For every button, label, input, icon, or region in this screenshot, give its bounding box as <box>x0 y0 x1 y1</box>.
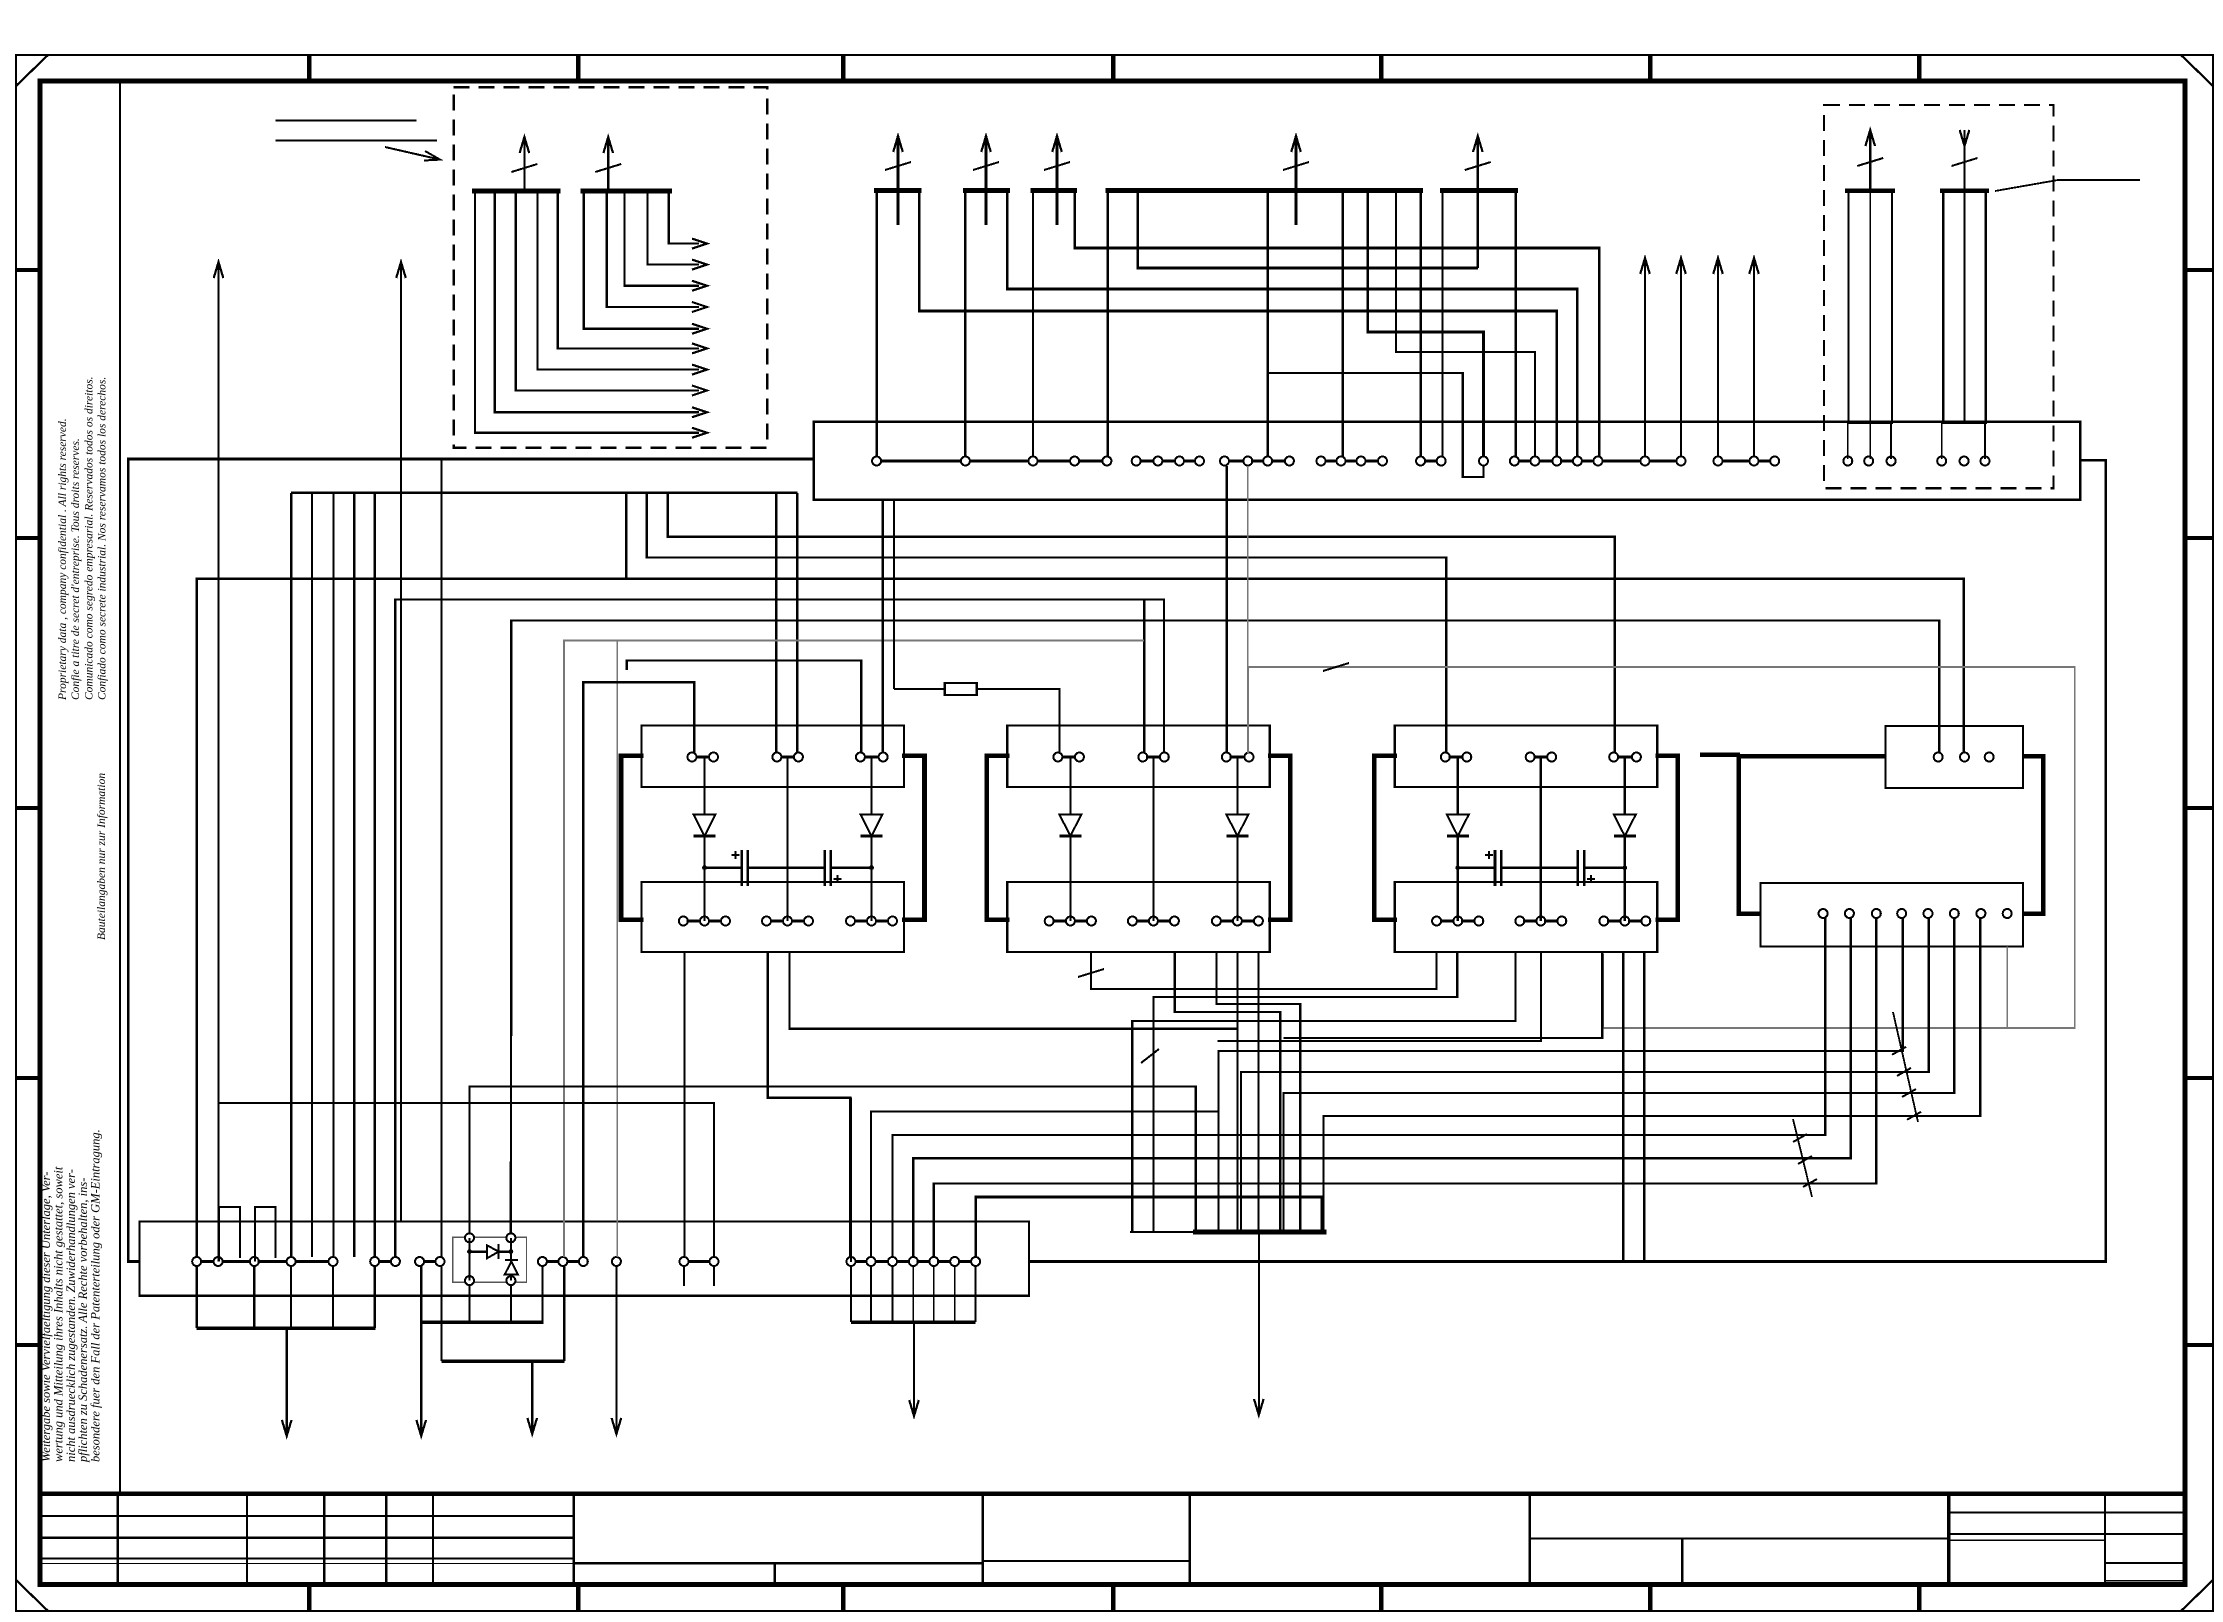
wire X1 drop c 913.3 <box>912 1266 914 1322</box>
wire W1 comb1 pin 5 <box>558 191 699 348</box>
terminal group X2.3 <box>1225 459 1248 462</box>
bus bar B1 <box>1193 1230 1327 1235</box>
wire X1 drop c 892.5 <box>892 1266 894 1322</box>
wire K3 capacitor link <box>1458 867 1495 869</box>
wire R1 right <box>977 689 1060 753</box>
wire K3 out 6 <box>1643 952 1645 1262</box>
wire comb B right <box>1007 191 1577 459</box>
contactor K2 coil box (top) <box>1007 726 1270 788</box>
wire header to K3 pole1 <box>647 493 1446 753</box>
connector A bar <box>874 188 922 193</box>
diode VK32 <box>1614 815 1636 837</box>
connector W1 comb 2 bar <box>581 189 672 194</box>
wire comb B left <box>964 191 966 459</box>
arrow to cable direct 2 <box>615 1266 617 1434</box>
shield bar 1 outline <box>1848 191 1892 423</box>
wire K1 pole 3 <box>870 757 872 921</box>
wire K3 out 2 <box>1153 952 1457 1232</box>
wire bundle v3 <box>332 493 334 1257</box>
arrow out x=1645 <box>1644 258 1646 456</box>
K2 top terminal pair 1 <box>1058 755 1080 758</box>
wire bus to K4 c6 <box>1284 918 1955 1232</box>
capacitor CK12 <box>823 850 826 886</box>
signal arrow 5 <box>692 324 707 334</box>
bus bar B2 <box>197 1326 376 1330</box>
wire net 107 <box>627 660 862 753</box>
connector B bar <box>963 188 1010 193</box>
wire X2 to K2 a <box>1226 466 1228 753</box>
capacitor CK31 <box>1494 850 1497 886</box>
terminal group X2.5 <box>1421 459 1442 462</box>
K3 bottom terminal triple 3 <box>1604 919 1646 922</box>
arrow to cable B3 <box>531 1361 533 1434</box>
K1 top terminal pair 1 <box>692 755 714 758</box>
wire shield1 center <box>1869 191 1871 423</box>
diode VK22 <box>1226 815 1248 837</box>
contactor K3 contact box (bottom) <box>1395 882 1658 952</box>
wire comb D pin4 <box>1341 191 1344 459</box>
wire comb A left <box>875 191 877 459</box>
wire riser 871 <box>871 1112 1219 1258</box>
wire X1 drop 196.7 <box>196 1266 198 1328</box>
wire comb D pin6 <box>1396 191 1535 459</box>
signal arrow 4 <box>692 302 707 312</box>
wire K4 feed (thick) <box>1700 753 1740 758</box>
signal arrow 6 <box>692 343 707 353</box>
arrow out x=1718 <box>1717 258 1719 456</box>
wire net 105 (screen) <box>564 641 1144 1257</box>
signal arrow 1 <box>692 239 707 249</box>
wire K1 coil feed b <box>796 493 798 753</box>
wire comb D pin5 <box>1368 191 1484 459</box>
wire W1 comb1 pin 4 <box>538 191 700 370</box>
K1 top terminal pair 2 <box>777 755 799 758</box>
wire X1 drop b 441 <box>441 1266 443 1361</box>
wire header joint <box>625 493 627 579</box>
arrow to cable B2 <box>286 1328 288 1436</box>
wire V5 internal top <box>470 1250 511 1252</box>
capacitor CK11 <box>740 850 743 886</box>
wire K1 out 2 <box>768 952 851 1257</box>
wire bundle v2 <box>311 493 313 1257</box>
connector D bar <box>1106 188 1424 193</box>
wire comb D pin7 <box>1420 191 1423 459</box>
wire X2 to K2 b (screen) <box>1247 466 1249 753</box>
arrow comb B <box>985 136 988 225</box>
K4 contact terminals <box>1819 909 1828 918</box>
svg-text:Confie a titre de secret: Confie a titre de secret d'entreprise. T… <box>70 438 82 700</box>
wire W1 comb2 pin 1 <box>584 191 699 329</box>
shield bar 1 top <box>1845 188 1895 193</box>
wire W1 comb1 pin 3 <box>516 191 699 390</box>
wire X1 drop c 975.6 <box>975 1266 977 1322</box>
K2 top terminal pair 3 <box>1226 755 1249 758</box>
connector E bar <box>1440 188 1518 193</box>
terminal group X2.4 <box>1321 459 1341 462</box>
wire net 108 <box>440 459 442 1257</box>
main enclosure outline <box>128 459 813 1262</box>
arrow comb C <box>1056 136 1059 225</box>
wire comb E mid <box>1477 191 1480 268</box>
wire K3 out 3 <box>1132 952 1515 1232</box>
wire X1 drop 333 <box>332 1266 334 1328</box>
bus bar B3b <box>442 1359 565 1363</box>
K4 contact box <box>1760 883 2023 946</box>
wire header to K3 pole3 <box>668 493 1615 753</box>
contactor K3 bracket right <box>1655 756 1678 920</box>
K1 bottom terminal triple 1 <box>683 919 725 922</box>
wire K2 pole 1 <box>1069 757 1071 921</box>
wire X1 drop 374.7 <box>374 1266 376 1328</box>
arrow to shield (comb 1) <box>523 137 525 191</box>
terminal group X1.7 <box>851 1260 871 1263</box>
terminal strip X2 outline <box>814 422 2081 500</box>
wire K2 out 2 <box>1175 952 1281 1232</box>
arrow shield 1 <box>1869 130 1871 191</box>
connector W1 dashed outline <box>454 87 768 448</box>
arrow to cable B4 <box>913 1322 915 1416</box>
wire X1 drop 254.3 <box>253 1266 255 1328</box>
svg-text:Bauteilangaben nur zur Informa: Bauteilangaben nur zur Information <box>96 773 108 940</box>
wire K2 out 4 <box>1257 952 1259 1232</box>
bundle tick group B <box>1793 1119 1812 1197</box>
connector C bar <box>1031 188 1077 193</box>
wire K3 pole 1 <box>1457 757 1459 921</box>
annotation leader <box>1995 180 2058 191</box>
shield bar 2 top <box>1940 188 1989 193</box>
contactor K1 contact box (bottom) <box>642 882 905 952</box>
wire K3 out 7 <box>1284 952 1603 1038</box>
shield W2 dashed outline <box>1824 105 2054 488</box>
arrow comb A <box>897 136 900 225</box>
wire K1 pole 2 <box>786 757 788 921</box>
diode VK12 <box>861 815 883 837</box>
wire X1 drop b 469 <box>468 1285 470 1322</box>
wire comb D pin2 <box>1138 191 1478 268</box>
wire net 106 <box>583 682 694 1257</box>
wire X1 drop b 564 <box>563 1266 565 1361</box>
K2 bottom terminal triple 2 <box>1132 919 1174 922</box>
wire X1 drop c 933.8 <box>933 1266 935 1322</box>
signal arrow 8 <box>692 386 707 396</box>
wire net 101 <box>197 579 1964 1257</box>
resistor R1 <box>945 683 977 695</box>
wire K3 out 5 <box>1622 952 1624 1262</box>
wire K1 capacitor link <box>705 867 742 869</box>
terminal group X2.6 <box>1479 457 1488 466</box>
wire comb C right <box>1075 191 1600 459</box>
wire comb C left <box>1032 191 1034 459</box>
K1 top terminal pair 3 <box>860 755 883 758</box>
wire W1 comb2 pin 2 <box>607 191 699 307</box>
wire W1 comb2 pin 3 <box>625 191 700 286</box>
screen drop K4 pin8 (grey) <box>2006 946 2008 1028</box>
wire riser 851 <box>850 1098 852 1262</box>
K2 bottom terminal triple 1 <box>1049 919 1091 922</box>
wire bundle v1 <box>290 493 292 1257</box>
wire K1 pole 1 <box>703 757 705 921</box>
wire comb A right <box>919 191 1557 459</box>
capacitor CK32 <box>1577 850 1580 886</box>
signal arrow 7 <box>692 365 707 375</box>
terminal group X1.6 <box>684 1260 714 1263</box>
wire riser 892 <box>893 918 1826 1257</box>
K3 bottom terminal triple 1 <box>1437 919 1479 922</box>
svg-text:Confiado como secrete industri: Confiado como secrete industrial. Nos re… <box>97 377 109 700</box>
wire shield2 pins <box>1941 423 1943 459</box>
wire R1 left <box>894 688 945 690</box>
contactor K2 contact box (bottom) <box>1007 882 1270 952</box>
wire K3 pole 3 <box>1624 757 1626 921</box>
wire riser 975 <box>976 1197 1322 1257</box>
contactor K1 coil box (top) <box>642 726 905 788</box>
K3 bottom terminal triple 2 <box>1520 919 1562 922</box>
contactor K2 bracket right <box>1268 756 1291 920</box>
wire comb D pin3 <box>1266 191 1269 459</box>
svg-text:Comunicado como segredo empre: Comunicado como segredo empresarial. Res… <box>83 376 95 700</box>
contactor K4 frame <box>1739 756 2044 914</box>
terminal stubs X1 <box>683 1266 685 1286</box>
jumper loop X1 a <box>219 1207 240 1262</box>
svg-text:besondere fuer den Fall der Pa: besondere fuer den Fall der Patenterteil… <box>89 1129 103 1462</box>
wire shield2 center <box>1964 191 1966 423</box>
wire X1 drop b 542 <box>541 1266 543 1322</box>
wire bus to K4 c4 <box>1219 918 1903 1232</box>
wire K1 coil feed a <box>775 493 777 753</box>
wire W1 comb1 pin 2 <box>495 191 699 412</box>
arrow to shield (comb 2) <box>607 137 609 191</box>
K1 bottom terminal triple 2 <box>767 919 809 922</box>
wire comb D pin3b <box>1268 373 1484 477</box>
bus bar B3a <box>421 1320 544 1324</box>
terminal group X1.5 <box>612 1257 621 1266</box>
wire comb E left <box>1441 191 1443 459</box>
arrow wire to sheet (left 1) <box>218 262 220 1262</box>
wire K3 pole 2 <box>1540 757 1542 921</box>
signal arrow 2 <box>692 260 707 270</box>
wire bundle v5 <box>374 493 376 1257</box>
wire V5 vertical right <box>510 1238 512 1281</box>
K3 top terminal pair 3 <box>1614 755 1637 758</box>
diode V5b <box>505 1262 518 1275</box>
arrow out x=1681 <box>1680 258 1682 456</box>
K3 top terminal pair 1 <box>1445 755 1467 758</box>
connector W1 comb 1 bar <box>472 189 561 194</box>
wire K1 coil feed c <box>882 500 884 753</box>
K2 top terminal pair 2 <box>1143 755 1165 758</box>
wire W1 comb2 pin 5 <box>669 191 699 244</box>
bus bar B4 <box>851 1320 976 1324</box>
signal arrow 10 <box>692 428 707 438</box>
wire K1 out 3 <box>790 952 1238 1029</box>
svg-text:Proprietary data , company: Proprietary data , company confidential … <box>57 418 69 701</box>
K3 top terminal pair 2 <box>1530 755 1552 758</box>
contactor K2 bracket left <box>987 756 1010 920</box>
wire riser 933 <box>934 918 1877 1257</box>
wire V5 vertical left <box>469 1238 471 1281</box>
wire net 102 <box>1143 600 1145 754</box>
K1 bottom terminal triple 3 <box>851 919 893 922</box>
arrow comb D <box>1295 136 1298 225</box>
jumper loop X1 b <box>255 1207 276 1262</box>
shield bar 2 outline <box>1943 191 1986 423</box>
wire K2K3 link <box>1091 952 1436 989</box>
wire net 109 <box>219 1103 715 1257</box>
contactor K1 bracket left <box>621 756 644 920</box>
arrow out x=1754 <box>1753 258 1755 456</box>
wire net 103 <box>395 600 1164 1258</box>
bridge V5 box <box>453 1237 527 1282</box>
K2 bottom terminal triple 3 <box>1216 919 1258 922</box>
contactor K3 coil box (top) <box>1395 726 1658 788</box>
wire bundle v4 <box>353 493 355 1257</box>
wire bridge to bus <box>470 1086 1196 1233</box>
wire riser 913 <box>913 918 1850 1257</box>
arrow wire to sheet (left 2) <box>400 262 402 1221</box>
wire X1 drop b 510 <box>510 1285 512 1322</box>
wire K2 out 7 <box>1236 952 1238 1232</box>
arrow to ground B1 <box>1258 1232 1260 1415</box>
signal arrow 3 <box>692 281 707 291</box>
terminal group X2.9 <box>1843 457 1852 466</box>
terminal group X1.4 <box>542 1260 563 1263</box>
wire X1 drop c 871 <box>870 1266 872 1322</box>
wire comb E right <box>1514 191 1517 459</box>
wire X1 drop c 851 <box>850 1266 852 1322</box>
K4 coil box <box>1886 726 2024 788</box>
cable reference symbol <box>276 120 417 122</box>
diode VK11 <box>694 815 716 837</box>
terminal group X1.3 <box>420 1260 440 1263</box>
screen bus (grey) <box>1248 667 2075 1028</box>
wire net 104 <box>511 621 1939 1234</box>
wire K3 out 4 <box>1217 952 1541 1041</box>
bundle tick group A <box>1893 1012 1918 1122</box>
terminal group X2.1 <box>877 459 966 462</box>
terminal group X2.8 <box>1718 459 1754 462</box>
terminal group X1.2 <box>375 1260 396 1263</box>
diode V5a <box>487 1245 499 1258</box>
arrow comb E <box>1477 136 1480 225</box>
wire bundle header <box>291 492 797 494</box>
wire W1 comb2 pin 4 <box>648 191 699 265</box>
wire shield1 pins <box>1847 423 1849 459</box>
wire bus to K4 c5 <box>1241 918 1929 1232</box>
wire comb D pin1 <box>1107 191 1110 459</box>
arrow shield 2 (down) <box>1963 130 1965 191</box>
K4 coil terminals <box>1934 753 1943 762</box>
wire net 105b (screen drop) <box>616 641 618 1257</box>
wire bus to K4 c7 <box>1324 918 1981 1232</box>
wire W1 comb1 pin 1 <box>475 191 699 433</box>
contactor K1 bracket right <box>902 756 925 920</box>
contactor K3 bracket left <box>1374 756 1397 920</box>
wire K2 pole 2 <box>1152 757 1154 921</box>
terminal strip X1 outline <box>139 1221 1029 1295</box>
wire K2 pole 3 <box>1236 757 1238 921</box>
arrow to cable direct <box>420 1266 422 1436</box>
bridge V5 terminals <box>465 1233 474 1242</box>
wire K1 out 1 <box>683 952 685 1257</box>
wire X1 drop c 954.7 <box>954 1266 956 1322</box>
diode VK21 <box>1059 815 1081 837</box>
wire X1 drop 291.1 <box>290 1266 292 1328</box>
terminal group X2.7 <box>1514 459 1535 462</box>
diode VK31 <box>1447 815 1469 837</box>
wire K2 out 3 <box>1216 952 1300 1232</box>
signal arrow 9 <box>692 407 707 417</box>
terminal group X2.10 <box>1937 457 1946 466</box>
terminal group X2.2 <box>1136 459 1158 462</box>
terminal group X1.1 <box>197 1260 218 1263</box>
